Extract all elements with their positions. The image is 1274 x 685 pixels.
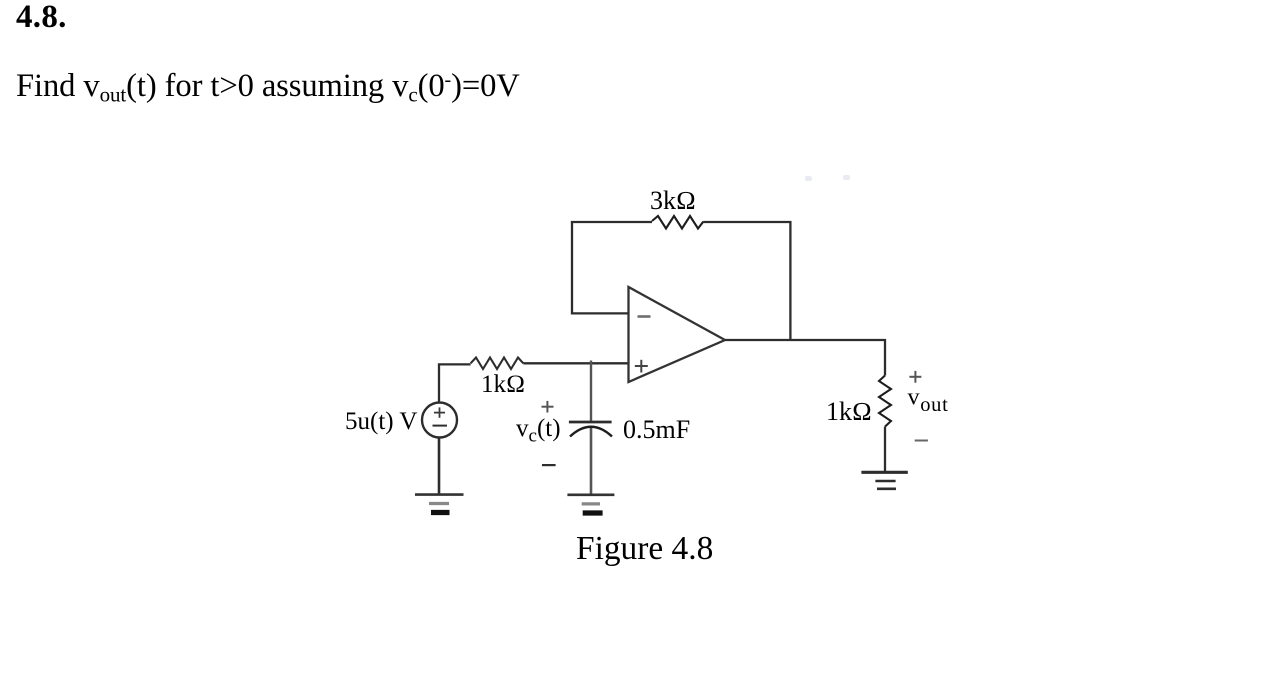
- op-amp plus input sign: [635, 360, 648, 373]
- label plus above vc: [542, 401, 554, 413]
- wire: source top up and right to R1: [439, 364, 471, 402]
- label minus below vc: [542, 464, 556, 466]
- label 1kohm (R3): [826, 397, 872, 426]
- capacitor C1 top plate: [569, 421, 612, 424]
- label 5u(t) V: [345, 408, 417, 435]
- voltage source V1 circle: [422, 403, 457, 438]
- svg-text:1kΩ: 1kΩ: [481, 371, 525, 398]
- op-amp minus input sign: [638, 315, 651, 318]
- svg-text:3kΩ: 3kΩ: [650, 186, 696, 215]
- svg-text:vout: vout: [908, 385, 949, 417]
- resistor R2 3kohm zigzag: [652, 216, 703, 229]
- heading 4.8.: [16, 1, 67, 34]
- wire: feedback right vertical: [789, 221, 791, 340]
- stray scan speck right: [843, 175, 850, 180]
- svg-text:0.5mF: 0.5mF: [623, 415, 690, 444]
- label 3kohm (R2): [650, 186, 696, 215]
- resistor R1 1kohm horizontal zigzag: [471, 358, 524, 370]
- voltage source plus sign: [434, 407, 445, 417]
- wire: source bottom to ground: [438, 438, 441, 494]
- resistor R3 1kohm vertical zigzag: [879, 376, 891, 427]
- wire: feedback top left segment: [571, 221, 652, 223]
- stray scan speck left: [805, 176, 812, 181]
- label vc(t): [516, 415, 561, 447]
- ground right (below R3): [861, 472, 907, 489]
- wire: capacitor to ground: [590, 428, 593, 494]
- label minus below vout: [915, 440, 928, 442]
- label plus above vout: [909, 371, 921, 383]
- wire: feedback left vertical: [571, 221, 573, 315]
- op-amp U1 triangle: [629, 287, 726, 382]
- wire: R1 to op-amp plus input: [523, 362, 628, 364]
- wire: R3 to ground: [884, 427, 886, 471]
- ground left (below source): [415, 495, 464, 513]
- svg-text:1kΩ: 1kΩ: [826, 397, 872, 426]
- voltage source minus sign: [433, 425, 448, 427]
- ground middle (below capacitor): [567, 495, 614, 513]
- label vout: [908, 385, 949, 417]
- wire: capacitor top stub: [590, 361, 592, 422]
- wire: feedback top right segment: [703, 221, 791, 223]
- wire: op-amp output horizontal: [725, 339, 886, 341]
- svg-text:vc(t): vc(t): [516, 415, 561, 447]
- wire: output down to R3: [884, 339, 886, 376]
- wire: inverting input horizontal: [571, 312, 629, 314]
- label 0.5mF: [623, 415, 690, 444]
- label 1kohm (R1): [481, 371, 525, 398]
- figure caption: [576, 532, 713, 565]
- svg-text:5u(t) V: 5u(t) V: [345, 408, 417, 435]
- problem statement line: [16, 70, 520, 106]
- capacitor C1 bottom curved plate: [570, 427, 612, 437]
